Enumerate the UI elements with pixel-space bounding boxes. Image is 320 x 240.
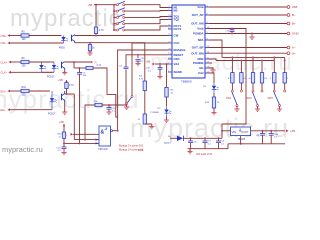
svg-text:mypractic.ru: mypractic.ru: [2, 145, 43, 154]
junction: [159, 63, 168, 65]
wire: [85, 105, 95, 140]
junction: [113, 16, 115, 18]
watermark mypractic: [0, 5, 293, 143]
wire: [10, 109, 52, 111]
wire: [125, 16, 168, 19]
wire: [145, 123, 152, 125]
power +5V: [146, 60, 156, 66]
svg-text:TQ2: TQ2: [174, 18, 180, 22]
wire: [209, 73, 214, 83]
svg-text:78M05: 78M05: [238, 138, 246, 141]
wire: [79, 68, 81, 143]
net flag CLK in: [65, 133, 100, 137]
junction: [251, 33, 253, 35]
resistor R4 1k: [165, 87, 174, 97]
optocoupler U3 label: [48, 113, 56, 116]
wire: [279, 107, 281, 109]
svg-text:CW+: CW+: [1, 34, 8, 38]
wire: [209, 6, 287, 8]
svg-text:PC817: PC817: [47, 76, 55, 79]
svg-text:CLK+: CLK+: [1, 60, 8, 64]
svg-text:1к: 1к: [59, 136, 61, 138]
op-amp U5 TB6560 body: [172, 5, 205, 84]
capacitor C4: [119, 66, 129, 69]
resistor SW2a 0.5: [249, 73, 255, 83]
resistor R5: [21, 31, 29, 41]
wire: [11, 61, 50, 63]
optocoupler U2 label: [47, 76, 55, 79]
resistor R11 4.7k: [65, 83, 75, 89]
terminal A-: [287, 46, 296, 50]
wire: [209, 62, 212, 64]
IC U5 left pins: [168, 6, 185, 75]
svg-text:PGNDA: PGNDA: [193, 32, 204, 36]
power +5V: [58, 78, 68, 83]
ground: [164, 117, 169, 122]
wire: [273, 83, 275, 90]
note: [196, 152, 212, 156]
svg-text:PGNDB: PGNDB: [193, 61, 203, 65]
junction: [95, 35, 97, 37]
wire: [42, 62, 55, 72]
junction: [113, 29, 115, 31]
svg-text:+5В: +5В: [88, 3, 93, 7]
svg-text:100: 100: [22, 38, 27, 41]
resistor SW1b 0.3: [240, 73, 248, 83]
wire: [64, 138, 80, 143]
wire: [209, 29, 246, 131]
svg-text:NFA: NFA: [198, 38, 205, 42]
svg-text:R10: R10: [22, 86, 27, 89]
wire 24V rail: [183, 137, 222, 139]
net label EN+: [1, 89, 11, 93]
svg-text:CLK: CLK: [174, 41, 181, 45]
junction: [137, 54, 139, 56]
junction: [262, 130, 273, 132]
svg-text:Вывод 3 к реле 002: Вывод 3 к реле 002: [119, 144, 144, 148]
svg-text:GND: GND: [292, 32, 300, 36]
svg-text:CW–: CW–: [1, 41, 8, 45]
optocoupler U3 phototransistor: [62, 91, 65, 103]
junction: [63, 142, 65, 144]
svg-text:24 В: 24 В: [138, 148, 144, 152]
wire: [251, 130, 285, 132]
wire: [284, 83, 286, 90]
resistor R8 4.7k: [86, 64, 102, 70]
ground: [106, 109, 111, 114]
switch S1: [114, 1, 125, 5]
wire: [209, 23, 287, 25]
net flag CLK: [91, 61, 98, 64]
optocoupler U2 phototransistor: [62, 62, 65, 70]
switch SW1: [226, 90, 242, 107]
logic gate U4 74HC132 body: [98, 126, 112, 151]
wire: [209, 47, 287, 49]
wire: [67, 94, 75, 140]
svg-text:CLK–: CLK–: [1, 71, 8, 75]
wire: [118, 50, 168, 131]
junction: [240, 143, 242, 145]
ground: [61, 150, 66, 155]
wire: [257, 107, 259, 109]
svg-text:EN–: EN–: [1, 108, 7, 112]
terminal GND: [287, 32, 299, 36]
wire: [95, 5, 97, 36]
wire gnd rail: [188, 148, 229, 150]
capacitor C10: [146, 64, 163, 79]
net label CLK+: [1, 60, 12, 64]
wire: [126, 55, 168, 67]
junction: [79, 142, 81, 144]
svg-text:+5В: +5В: [146, 60, 151, 64]
wire: [213, 93, 215, 97]
svg-text:100: 100: [22, 64, 27, 67]
wire: [240, 136, 242, 144]
svg-text:330: 330: [22, 93, 27, 96]
svg-text:M2: M2: [174, 9, 178, 13]
ground: [149, 124, 154, 129]
wire: [170, 137, 177, 139]
wire: [65, 89, 67, 95]
terminal B+: [287, 22, 296, 26]
svg-text:220 мкФ 16 В: 220 мкФ 16 В: [196, 152, 212, 156]
capacitor C3: [77, 71, 87, 77]
wire: [90, 43, 145, 81]
wire: [222, 130, 231, 132]
wire bus: [113, 5, 115, 30]
junction: [66, 93, 68, 95]
LED D2 POWER: [151, 106, 172, 117]
wire: [240, 83, 242, 90]
junction: [73, 61, 75, 63]
wire: [10, 35, 62, 37]
LED D5: [203, 83, 219, 93]
wire: [74, 139, 99, 141]
wire: [74, 62, 86, 68]
wire: [125, 26, 168, 30]
svg-text:10к: 10к: [94, 101, 97, 103]
wire: [80, 142, 100, 144]
wire: [261, 61, 263, 73]
capacitor C6: [188, 138, 197, 148]
switch S3: [114, 14, 125, 18]
wire: [93, 68, 118, 117]
wire: [75, 35, 168, 37]
wire gnd rail: [228, 143, 285, 145]
svg-text:TB6560: TB6560: [181, 80, 192, 84]
capacitor C7: [203, 138, 212, 148]
junction: [79, 67, 81, 69]
capacitor C14: [269, 131, 279, 144]
switch SW3: [268, 90, 286, 107]
svg-text:PC817: PC817: [48, 113, 56, 116]
wire: [236, 107, 238, 109]
resistor R15 1k: [205, 97, 220, 108]
ground: [277, 106, 282, 111]
wire: [75, 43, 90, 45]
svg-text:Mo: Mo: [199, 66, 203, 70]
svg-text:SGND: SGND: [174, 70, 182, 74]
ground: [234, 106, 239, 111]
svg-text:OUT_AP: OUT_AP: [192, 13, 204, 17]
ground: [62, 70, 67, 75]
gate input arrow: [96, 142, 99, 144]
svg-text:А+: А+: [292, 51, 296, 55]
junction: [284, 60, 286, 62]
wire: [252, 83, 254, 90]
resistor R10: [21, 86, 29, 96]
power +5V out: [286, 129, 295, 133]
svg-text:В–: В–: [292, 13, 296, 17]
wire: [240, 61, 242, 73]
optocoupler U1 label: [59, 47, 65, 50]
ground: [249, 34, 254, 40]
capacitor C15: [226, 28, 235, 35]
svg-text:ENABLE: ENABLE: [174, 48, 186, 52]
wire: [209, 14, 287, 16]
note: [138, 148, 144, 152]
ground: [255, 106, 260, 111]
wire: [273, 57, 275, 72]
junction: [231, 56, 233, 58]
svg-text:В+: В+: [292, 22, 296, 26]
switch S6: [126, 96, 134, 105]
svg-text:&: &: [101, 130, 105, 136]
svg-text:OUT_AM: OUT_AM: [191, 22, 204, 26]
resistor SW3b 1: [283, 73, 289, 83]
wire: [102, 69, 126, 105]
junction: [84, 139, 86, 141]
resistor R9 100k: [88, 45, 95, 52]
net label CLK-: [1, 71, 12, 75]
capacitor C9: [256, 131, 265, 144]
svg-text:CW: CW: [174, 34, 179, 38]
wire: [209, 68, 213, 70]
note: [119, 144, 144, 152]
ground: [124, 104, 129, 109]
svg-text:DCY2: DCY2: [174, 27, 182, 31]
capacitor C8: [216, 138, 225, 148]
svg-text:VOUT: VOUT: [241, 130, 249, 134]
ground: [211, 110, 216, 115]
svg-text:+5В: +5В: [59, 120, 64, 124]
net label EN-: [1, 108, 11, 112]
resistor SW2b 0.5: [260, 73, 268, 83]
svg-text:mypractic: mypractic: [10, 5, 122, 32]
wire: [209, 59, 216, 61]
wire: [64, 103, 66, 112]
net label CW+: [1, 34, 11, 38]
optocoupler U2 LED: [52, 62, 59, 72]
junction: [252, 56, 254, 58]
wire: [221, 131, 223, 139]
diode D6: [164, 136, 183, 145]
diode D1: [39, 62, 46, 72]
svg-text:Vmb: Vmb: [197, 27, 203, 31]
wire: [132, 43, 168, 96]
wire: [166, 97, 168, 106]
optocoupler U1 phototransistor: [72, 35, 75, 43]
wire: [64, 70, 66, 73]
wire: [231, 57, 233, 72]
junction: [273, 56, 275, 58]
svg-text:+5В: +5В: [58, 78, 63, 82]
terminal 24V: [287, 5, 297, 9]
junction: [190, 130, 223, 140]
wire: [112, 130, 117, 132]
resistor R6: [21, 57, 29, 67]
power +5V: [59, 120, 65, 132]
wire: [252, 57, 254, 72]
wire: [209, 52, 287, 54]
junction: [89, 42, 91, 44]
ground: [210, 67, 215, 72]
switch S4: [114, 20, 125, 24]
switch SW2: [247, 90, 264, 107]
svg-text:24В: 24В: [292, 5, 297, 9]
wire: [227, 144, 229, 149]
junction: [113, 10, 115, 12]
svg-text:Vdd: Vdd: [174, 62, 180, 66]
resistor R13: [58, 132, 66, 138]
switch S5: [114, 27, 125, 31]
junction: [117, 130, 119, 132]
junction: [261, 60, 263, 62]
net label CW-: [1, 41, 11, 45]
wire: [126, 105, 128, 108]
svg-text:А–: А–: [292, 46, 296, 50]
wire: [166, 64, 168, 87]
wire: [125, 5, 168, 8]
terminal B-: [287, 13, 296, 17]
caption mypractic.ru: [2, 145, 43, 154]
wire bus NFA: [222, 56, 285, 58]
svg-text:SW3: SW3: [268, 97, 274, 100]
junction: [113, 4, 115, 6]
wire: [10, 42, 64, 44]
wire: [209, 40, 222, 57]
wire: [89, 51, 91, 53]
ground: [187, 149, 192, 154]
wire: [65, 61, 90, 63]
wire: [261, 83, 263, 90]
capacitor C11: [135, 55, 145, 66]
svg-text:74HC132: 74HC132: [98, 149, 108, 151]
wire: [125, 10, 168, 13]
wire: [155, 63, 168, 65]
optocoupler U1 LED: [61, 36, 68, 44]
svg-text:VIN: VIN: [232, 130, 237, 134]
svg-text:4.7k: 4.7k: [69, 84, 74, 87]
junction: [108, 104, 110, 106]
regulator U6 78M05 body: [231, 127, 251, 141]
resistor SW3a 1: [270, 73, 276, 83]
ground: [62, 109, 67, 114]
svg-text:КД243: КД243: [164, 143, 171, 145]
svg-text:Vma: Vma: [197, 5, 203, 9]
wire: [151, 124, 153, 127]
optocoupler U3 LED: [50, 91, 57, 110]
capacitor C16: [107, 105, 117, 112]
wire: [11, 71, 52, 73]
wire: [284, 57, 286, 72]
resistor R16 1k: [138, 114, 147, 124]
ground: [87, 50, 92, 55]
svg-text:EN+: EN+: [1, 89, 7, 93]
resistor SW1a 0.3: [228, 73, 234, 83]
wire: [10, 90, 50, 92]
svg-text:SW1: SW1: [226, 97, 232, 100]
svg-text:OSC: OSC: [174, 57, 181, 61]
svg-text:4N26: 4N26: [59, 47, 65, 50]
wire: [125, 20, 168, 24]
junction: [95, 4, 97, 6]
wire: [144, 91, 146, 115]
gate input arrow: [96, 139, 99, 141]
capacitor C13: [57, 147, 67, 152]
svg-text:4.7k: 4.7k: [99, 29, 104, 32]
junction: [113, 23, 115, 25]
wire: [209, 33, 287, 35]
svg-text:POWER: POWER: [151, 112, 160, 114]
wire: [231, 83, 233, 90]
switch S2: [114, 8, 125, 12]
power +5V: [88, 3, 115, 7]
wire: [63, 143, 65, 147]
resistor R3 4.7k: [139, 76, 147, 91]
resistor R7 4.7k: [94, 27, 104, 34]
resistor R12 10k: [94, 101, 102, 107]
svg-text:+5В: +5В: [290, 129, 295, 133]
svg-text:OUT_BP: OUT_BP: [192, 46, 204, 50]
terminal A+: [287, 51, 296, 55]
wire bus NFB: [216, 60, 274, 62]
junction: [240, 60, 242, 62]
wire: [166, 117, 168, 120]
wire: [213, 108, 215, 113]
svg-text:SW2: SW2: [247, 97, 253, 100]
svg-text:OUT_BM: OUT_BM: [191, 51, 204, 55]
svg-text:Vref: Vref: [198, 71, 204, 75]
IC U5 right pins: [191, 5, 209, 75]
